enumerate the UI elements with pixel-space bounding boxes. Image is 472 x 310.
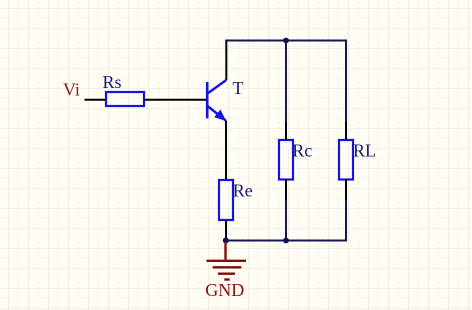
- resistor Re: [219, 180, 253, 220]
- junction: [223, 238, 229, 244]
- wire: [345, 40, 347, 122]
- svg-text:RL: RL: [353, 141, 376, 161]
- junction: [283, 38, 289, 44]
- wire: [345, 122, 347, 140]
- wire: [225, 240, 347, 242]
- wire: [85, 99, 107, 101]
- ground: [207, 242, 247, 280]
- svg-text:GND: GND: [205, 280, 244, 300]
- wire: [285, 122, 287, 140]
- wire: [225, 220, 227, 240]
- svg-text:Rc: Rc: [292, 140, 312, 160]
- wire: [144, 99, 207, 101]
- resistor Rs: [103, 72, 145, 106]
- wire: [345, 180, 347, 201]
- transistor T: [207, 78, 243, 121]
- resistor Rc: [279, 140, 312, 180]
- wire: [225, 40, 227, 80]
- junction: [283, 238, 289, 244]
- svg-text:Re: Re: [233, 181, 253, 201]
- wire: [345, 200, 347, 240]
- svg-text:Rs: Rs: [103, 72, 122, 92]
- svg-text:Vi: Vi: [63, 80, 80, 100]
- wire: [225, 121, 227, 180]
- wire: [285, 200, 287, 240]
- wire: [225, 40, 347, 42]
- wire: [285, 180, 287, 201]
- wire: [285, 40, 287, 122]
- resistor RL: [339, 140, 376, 180]
- svg-text:T: T: [233, 78, 244, 98]
